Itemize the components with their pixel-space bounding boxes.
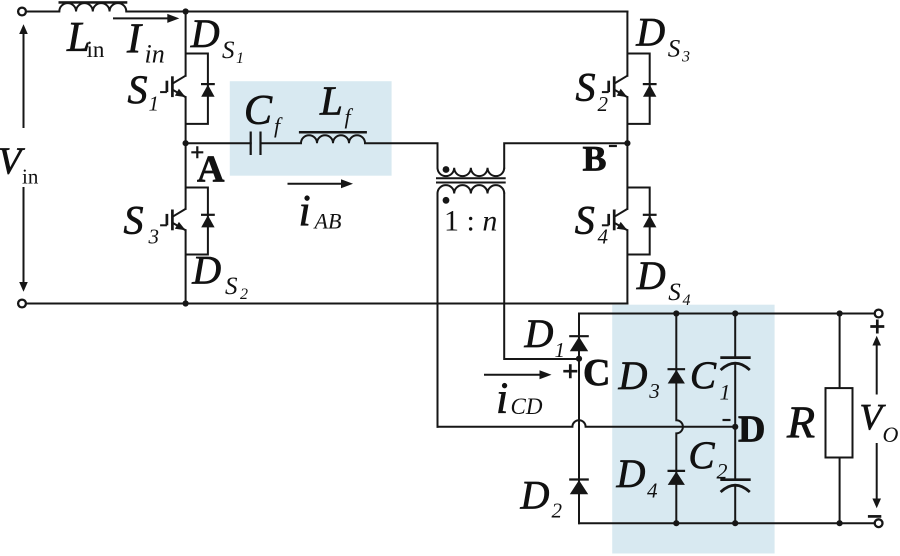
svg-text:O: O	[883, 422, 899, 447]
diode D_S3 branch	[627, 54, 649, 124]
svg-text:in: in	[22, 164, 39, 188]
svg-text:CD: CD	[511, 394, 543, 419]
inductor L_f core bar	[299, 131, 367, 134]
svg-text:B: B	[583, 139, 607, 179]
wire leg D3 D4 with hop over mid wire	[676, 314, 683, 524]
svg-text:S: S	[128, 67, 148, 112]
wire right leg upper	[626, 12, 628, 76]
diode D2	[569, 478, 589, 480]
highlight box filter C_f L_f	[230, 81, 392, 176]
output terminal top	[875, 310, 883, 318]
svg-text:3: 3	[681, 49, 690, 66]
svg-text:in: in	[87, 37, 105, 62]
svg-text:D: D	[191, 248, 221, 293]
svg-text:3: 3	[148, 225, 160, 249]
transformer primary coil	[437, 168, 504, 176]
diode D3	[668, 368, 686, 370]
svg-text:A: A	[197, 148, 225, 190]
svg-text:4: 4	[683, 292, 691, 309]
svg-text:2: 2	[598, 92, 609, 116]
junction dot top rail C1 leg	[732, 310, 738, 316]
transistor S4	[602, 209, 628, 230]
wire node A to C_f	[186, 142, 251, 144]
svg-text:2: 2	[552, 499, 563, 523]
wire secondary left lead down	[437, 194, 439, 427]
transformer primary dot	[443, 166, 450, 173]
wire load R leads	[839, 314, 841, 524]
diode D_S2 branch	[186, 188, 208, 255]
svg-text:3: 3	[648, 379, 660, 403]
junction dot bottom rail C2 leg	[732, 520, 738, 526]
node B dot	[624, 140, 630, 146]
wire left leg lower	[185, 230, 187, 303]
transistor S2	[602, 76, 628, 97]
svg-text:in: in	[145, 40, 165, 69]
node C dot	[576, 356, 582, 362]
V_in measure arrow upper	[23, 33, 25, 128]
svg-text:4: 4	[598, 225, 609, 249]
svg-text:S: S	[225, 273, 238, 300]
svg-text:D: D	[524, 311, 554, 356]
inductor L_f coil	[301, 135, 365, 143]
input terminal bottom	[18, 300, 26, 308]
arrow i_AB	[288, 183, 344, 185]
V_O measure arrow upper	[876, 345, 878, 395]
wire bottom rail	[26, 303, 627, 305]
svg-text:i: i	[496, 374, 508, 423]
wire rectifier bottom rail	[579, 522, 874, 524]
svg-text:2: 2	[240, 286, 248, 303]
capacitor C_f	[251, 132, 261, 156]
wire C_f to L_f	[261, 142, 302, 144]
wire top rail	[26, 11, 627, 13]
svg-text:2: 2	[717, 459, 728, 484]
svg-text:D: D	[618, 353, 648, 398]
svg-text:C: C	[244, 88, 273, 134]
svg-text:S: S	[668, 279, 681, 306]
junction dot bottom rail D4 leg	[673, 520, 679, 526]
output terminal bottom	[875, 519, 883, 527]
svg-text:D: D	[190, 11, 220, 56]
svg-text:I: I	[126, 17, 143, 63]
svg-text:S: S	[576, 65, 596, 110]
diode D_S4 branch	[627, 188, 649, 255]
svg-text:D: D	[616, 451, 646, 496]
V_O measure arrow lower	[876, 443, 878, 499]
svg-text:1: 1	[236, 50, 244, 67]
node junction dot bottom left	[183, 300, 189, 306]
svg-text:AB: AB	[313, 209, 342, 234]
svg-text:C: C	[690, 354, 717, 397]
node junction dot top left	[183, 8, 189, 14]
minus sign output	[868, 515, 881, 518]
plus sign output	[870, 320, 884, 334]
minus sign at node D	[723, 419, 731, 421]
minus sign at node B	[609, 145, 617, 147]
svg-text:D: D	[520, 473, 550, 518]
svg-text:S: S	[222, 37, 235, 64]
wire transformer to node B	[504, 143, 627, 168]
junction dot bottom rail R leg	[837, 520, 843, 526]
svg-text:1: 1	[720, 379, 731, 404]
wire left leg upper	[185, 12, 187, 76]
svg-text:D: D	[635, 9, 665, 54]
arrow i_CD	[484, 374, 541, 376]
svg-text:1 : n: 1 : n	[444, 205, 497, 238]
input terminal top	[18, 8, 26, 16]
node D dot	[732, 424, 738, 430]
wire leg D1 D2	[578, 314, 580, 524]
inductor Lin core bar	[59, 1, 128, 4]
svg-text:D: D	[738, 408, 765, 450]
svg-text:S: S	[124, 198, 144, 243]
diode D1	[569, 335, 589, 337]
svg-text:1: 1	[555, 338, 566, 362]
wire L_f to transformer	[365, 143, 438, 168]
wire left leg middle	[185, 97, 187, 209]
svg-text:C: C	[583, 352, 610, 394]
svg-text:L: L	[319, 77, 343, 123]
capacitor C1	[720, 356, 750, 359]
wire secondary right lead down to C	[504, 194, 579, 360]
wire rectifier top rail	[579, 313, 874, 315]
plus sign at node C	[563, 364, 577, 378]
resistor R	[826, 388, 853, 457]
node A dot	[183, 140, 189, 146]
capacitor C2	[720, 478, 750, 481]
svg-text:S: S	[575, 198, 595, 243]
svg-text:D: D	[636, 253, 666, 298]
svg-text:S: S	[668, 35, 681, 62]
diode D4	[668, 470, 686, 472]
svg-text:i: i	[299, 186, 311, 235]
wire right leg lower	[626, 230, 628, 303]
V_in measure arrow lower	[23, 187, 25, 283]
transistor S3	[160, 209, 186, 230]
wire right leg middle	[626, 97, 628, 209]
junction dot top rail R leg	[837, 310, 843, 316]
transformer secondary coil	[437, 185, 504, 193]
wire leg C1 C2	[734, 314, 736, 524]
svg-text:C: C	[689, 434, 716, 477]
svg-text:1: 1	[149, 92, 160, 116]
svg-text:R: R	[786, 396, 815, 447]
diode D_S1 branch	[186, 54, 208, 124]
arrow I_in	[113, 17, 169, 19]
junction dot top rail D3 leg	[673, 310, 679, 316]
svg-text:4: 4	[647, 479, 658, 503]
transformer core	[436, 178, 506, 182]
inductor Lin coil	[59, 3, 126, 11]
transistor S1	[160, 76, 186, 97]
highlight box rectifier	[612, 305, 774, 554]
transformer secondary dot	[443, 197, 450, 204]
plus sign at node A	[191, 146, 203, 158]
wire mid with hop over D1-D2 leg	[438, 420, 736, 427]
